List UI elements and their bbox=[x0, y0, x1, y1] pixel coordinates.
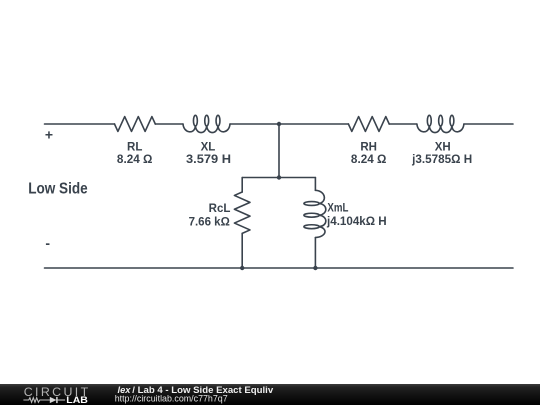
wire XmL-bottom-lead bbox=[314, 238, 316, 269]
svg-text:http://circuitlab.com/c77h7q7: http://circuitlab.com/c77h7q7 bbox=[115, 394, 228, 404]
node junction bottom-right bbox=[313, 266, 317, 270]
svg-text:RcL: RcL bbox=[209, 203, 231, 215]
svg-text:3.579 H: 3.579 H bbox=[186, 154, 231, 166]
resistor RL bbox=[115, 117, 156, 132]
svg-text:j4.104kΩ H: j4.104kΩ H bbox=[326, 216, 387, 228]
svg-text:-: - bbox=[45, 235, 50, 251]
svg-text:7.66 kΩ: 7.66 kΩ bbox=[189, 217, 230, 229]
svg-text:XL: XL bbox=[201, 141, 216, 153]
wire RcL-top-lead bbox=[241, 178, 243, 193]
wire top-right bbox=[464, 123, 513, 125]
node junction bottom-left bbox=[240, 266, 244, 270]
wire XmL-top-lead bbox=[314, 178, 316, 191]
wire parallel-bar bbox=[242, 177, 315, 179]
wire RL-XL bbox=[155, 123, 183, 125]
resistor RcL bbox=[234, 192, 250, 233]
svg-text:RH: RH bbox=[360, 141, 377, 153]
wire bottom bbox=[45, 267, 514, 269]
svg-text:+: + bbox=[45, 126, 53, 142]
svg-text:LAB: LAB bbox=[66, 395, 88, 405]
svg-text:Low Side: Low Side bbox=[28, 181, 88, 198]
resistor RH bbox=[348, 117, 389, 132]
node junction parallel-bar bbox=[277, 175, 281, 179]
CircuitLab logo resistor squiggle bbox=[23, 398, 50, 403]
wire RcL-bottom-lead bbox=[241, 233, 243, 268]
svg-text:XmL: XmL bbox=[327, 203, 348, 215]
svg-text:j3.5785Ω H: j3.5785Ω H bbox=[411, 154, 472, 166]
svg-text:XH: XH bbox=[435, 141, 451, 153]
svg-text:8.24 Ω: 8.24 Ω bbox=[117, 154, 153, 166]
svg-text:RL: RL bbox=[127, 141, 142, 153]
wire top-left bbox=[45, 123, 115, 125]
node junction top bbox=[277, 122, 281, 126]
inductor XH bbox=[417, 115, 464, 132]
svg-text:8.24 Ω: 8.24 Ω bbox=[351, 154, 387, 166]
inductor XmL bbox=[304, 190, 326, 237]
wire RH-XH bbox=[389, 123, 417, 125]
wire XL-junction-RH bbox=[230, 123, 348, 125]
wire junction-down bbox=[278, 124, 280, 178]
CircuitLab logo diode bbox=[50, 397, 65, 403]
inductor XL bbox=[183, 115, 230, 132]
